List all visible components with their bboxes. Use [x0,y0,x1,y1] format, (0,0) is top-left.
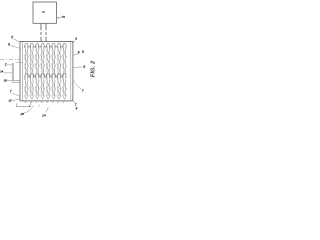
screw bank 2 top arches [25,74,67,78]
inter-arch notches top [28,46,63,48]
label 7 left leader [12,93,20,96]
svg-text:8: 8 [8,42,10,46]
wall tick lower right [73,80,75,82]
bottom line tick right [39,105,41,107]
svg-text:4: 4 [76,106,78,110]
wall tick mid right [73,66,75,68]
svg-text:FIG. 2: FIG. 2 [90,60,96,77]
svg-text:8: 8 [83,65,85,69]
svg-text:36: 36 [4,79,7,83]
svg-text:76: 76 [61,15,65,19]
svg-text:5: 5 [82,50,84,54]
motor box [33,2,56,23]
svg-text:2: 2 [4,62,7,66]
svg-text:5: 5 [11,35,13,39]
label 34 leader [4,72,13,74]
label 36 leader [7,80,12,82]
motor label 76 leader arrow [57,16,61,19]
svg-text:8: 8 [78,51,80,55]
screw bank 2 helix flights back [24,80,67,96]
label 5 leader [14,39,20,42]
drive shaft lines (dashed) [40,23,46,41]
screw bank 1 bottom points [28,74,63,77]
label 85 leader [73,54,78,56]
screw bank 2 helix flights front [24,78,67,96]
arrow dot on elbow leader [29,106,31,107]
label 8 left leader [10,45,20,48]
screw bank 2 side rails [25,76,65,95]
label 74 leader [74,101,76,103]
screw bank 2 bottom points [24,95,66,99]
label 28 curved leader [24,106,34,113]
label 9 top right leader [73,41,75,44]
label 8 mid right leader [75,66,82,68]
label 24 leader [46,107,48,112]
feed pipe left [12,64,20,83]
vessel outer shell [20,41,73,101]
svg-text:28: 28 [19,112,24,116]
screw bank 1 top arches [25,43,67,47]
screw bank 1 side rails [25,46,65,76]
svg-text:24: 24 [41,113,46,117]
vessel inner wall left [21,41,23,101]
screw bank 1 helix flights front [24,46,67,74]
svg-text:16: 16 [8,98,12,102]
svg-text:7: 7 [82,89,84,93]
vessel inner wall right [70,41,72,101]
label 7 right leader [75,83,82,89]
level line (dash-dot) [0,59,20,61]
svg-text:34: 34 [0,69,3,73]
svg-text:9: 9 [75,37,77,41]
label 2 leader [7,64,12,66]
label 16 leader [12,99,20,101]
screw tips below floor [24,101,64,103]
bottom elbow leader [16,102,31,107]
svg-text:7: 7 [10,90,12,94]
inlet stub on left wall [16,61,22,63]
screw bank 1 helix flights back [24,48,67,74]
